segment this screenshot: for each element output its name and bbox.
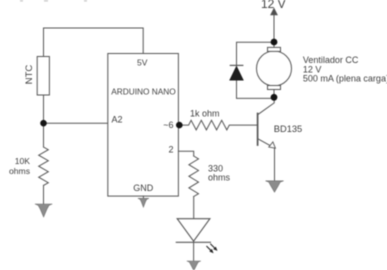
svg-text:5V: 5V	[137, 58, 148, 68]
svg-text:A2: A2	[112, 114, 123, 124]
svg-text:~6: ~6	[163, 120, 173, 130]
svg-text:ohms: ohms	[208, 173, 231, 183]
svg-text:500 mA (plena carga): 500 mA (plena carga)	[303, 74, 387, 84]
svg-text:BD135: BD135	[274, 124, 302, 134]
svg-text:ARDUINO NANO: ARDUINO NANO	[111, 86, 176, 96]
svg-text:NTC: NTC	[24, 65, 35, 85]
svg-text:12 V: 12 V	[261, 0, 286, 11]
svg-text:ohms: ohms	[9, 166, 30, 176]
svg-text:2: 2	[168, 144, 173, 154]
svg-text:10K: 10K	[15, 156, 31, 166]
svg-text:1k ohm: 1k ohm	[190, 109, 220, 119]
svg-text:GND: GND	[133, 183, 154, 193]
